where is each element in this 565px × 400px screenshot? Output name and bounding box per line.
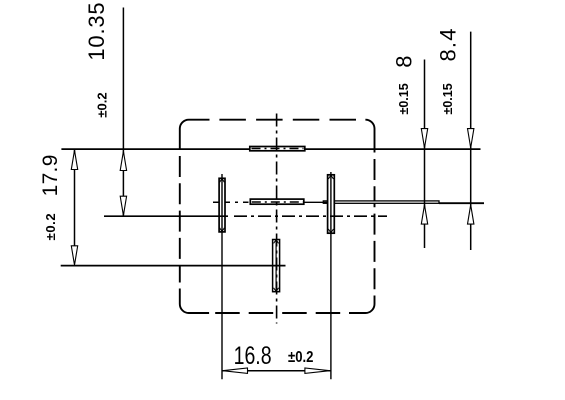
- svg-text:17.9: 17.9: [39, 154, 62, 196]
- relay body outline: right edge (dashed): [374, 159, 376, 296]
- relay body outline: top-right corner (solid): [365, 120, 374, 153]
- dimension line 16.8 (y=370.7): [222, 370, 331, 372]
- right coil pin body: [328, 175, 335, 233]
- arrowhead left 16.8: [223, 368, 248, 373]
- dimension line 10.35 (x=123.4): [122, 8, 124, 217]
- centerline of middle pin row (dash-dot through left pin and blade): [213, 201, 249, 203]
- bottom pin centerline: [275, 240, 277, 292]
- left coil pin centerline / extension line to 16.8 dim: [221, 174, 223, 379]
- centerline through top blade pin: [252, 148, 304, 150]
- left coil pin tip marks: [220, 179, 225, 232]
- relay body outline: left edge (dashed): [179, 156, 181, 283]
- relay body outline: bottom edge (dashed): [215, 312, 349, 314]
- right coil pin centerline / extension line to 16.8 dim: [330, 172, 332, 379]
- arrowhead down 17.9: [71, 246, 77, 265]
- relay body outline: top edge (dashed): [219, 119, 366, 121]
- svg-text:±0.15: ±0.15: [397, 83, 411, 114]
- svg-text:10.35: 10.35: [84, 2, 109, 61]
- svg-text:±0.2: ±0.2: [95, 92, 110, 117]
- svg-text:±0.15: ±0.15: [441, 83, 455, 114]
- left coil pin body: [219, 178, 225, 232]
- arrowhead up 17.9: [71, 150, 77, 169]
- arrowhead down 8.4 (above line): [468, 129, 474, 148]
- horizontal centerline of body: dash-dot part: [234, 215, 387, 217]
- arrowhead up 8.4 (below line): [468, 205, 474, 224]
- extension line top pin row (y=149.3) left part: [61, 148, 249, 150]
- svg-text:8: 8: [391, 55, 416, 67]
- relay body outline: bottom-right corner (solid): [349, 296, 375, 314]
- dimension line 8 (x=424.5): [424, 60, 426, 249]
- horizontal centerline of body: solid extension part: [104, 215, 228, 217]
- arrowhead up 10.35: [120, 151, 126, 170]
- arrowhead down 10.35: [120, 196, 126, 215]
- extension line bottom pin row (y=265.5): [61, 265, 286, 267]
- svg-text:16.8: 16.8: [234, 342, 272, 370]
- arrowhead down 8 (above line): [421, 129, 427, 148]
- svg-text:8.4: 8.4: [436, 27, 461, 61]
- extension line top pin row right part: [305, 148, 481, 150]
- right coil pin tip marks: [328, 175, 333, 233]
- svg-text:±0.2: ±0.2: [43, 213, 58, 241]
- svg-text:±0.2: ±0.2: [288, 349, 313, 366]
- relay body outline: top-left corner (solid): [180, 120, 210, 150]
- dimension line 8.4 (x=470.7): [470, 32, 472, 250]
- extension line middle row right (y=203.2): [439, 202, 484, 204]
- top blade pin (COM): [250, 147, 305, 151]
- vertical centerline of body: [276, 114, 278, 324]
- side blade bar of right pin: [323, 201, 439, 203]
- dimension line 17.9 (x=74.5): [74, 149, 76, 246]
- relay body outline: bottom-left corner (solid): [180, 289, 209, 314]
- bottom pin tip marks: [274, 240, 279, 292]
- middle blade pin: [250, 199, 303, 204]
- bottom pin (NO) body: [273, 240, 280, 292]
- arrowhead right 16.8: [305, 368, 330, 373]
- connector line blade to right pin: [304, 201, 328, 203]
- arrowhead up 8 (below line): [421, 205, 427, 224]
